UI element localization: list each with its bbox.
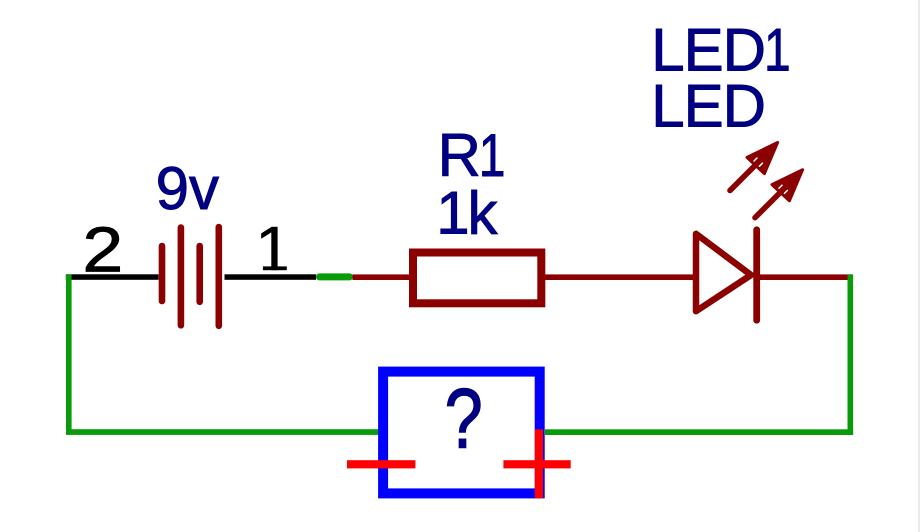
wire right rail vertical (green) bbox=[848, 274, 854, 435]
svg-text:?: ? bbox=[445, 371, 483, 465]
LED1 emission arrow upper bbox=[730, 143, 778, 191]
LED1 anode triangle bbox=[696, 234, 751, 311]
wire to resistor left lead (dark red) bbox=[353, 274, 414, 280]
wire left rail vertical (green) bbox=[66, 274, 72, 434]
window edge strip right bbox=[918, 0, 920, 532]
svg-text:2: 2 bbox=[82, 214, 123, 286]
wire bottom right (green) bbox=[545, 429, 853, 435]
svg-text:1: 1 bbox=[764, 17, 791, 84]
LED1 cathode bar bbox=[753, 230, 760, 320]
wire pin2 to left rail (black) bbox=[66, 274, 159, 280]
wire resistor to LED anode (dark red) bbox=[541, 274, 696, 280]
svg-text:1k: 1k bbox=[436, 179, 498, 246]
wire bottom left (green) bbox=[66, 429, 381, 435]
battery pin number 1 bbox=[261, 227, 287, 270]
polarity plus mark horizontal (red) bbox=[503, 460, 570, 468]
LED1 emission arrow lower bbox=[755, 170, 803, 218]
battery BT 9v plate 2 long bbox=[178, 228, 185, 326]
battery BT 9v plate 4 long bbox=[216, 227, 223, 326]
polarity minus mark (red) bbox=[347, 460, 415, 468]
wire battery pin1 stub (black) bbox=[225, 274, 317, 280]
battery BT 9v plate 3 short bbox=[196, 246, 203, 302]
polarity plus mark vertical (red) bbox=[535, 429, 543, 498]
unknown component U? box bbox=[383, 372, 540, 494]
battery BT 9v plate 1 short bbox=[159, 246, 166, 301]
wire LED cathode to right rail (dark red) bbox=[760, 274, 851, 280]
resistor R1 body bbox=[413, 253, 541, 304]
wire green junction segment after pin1 bbox=[316, 273, 353, 280]
svg-text:9v: 9v bbox=[156, 155, 219, 222]
svg-text:LED: LED bbox=[651, 73, 765, 140]
